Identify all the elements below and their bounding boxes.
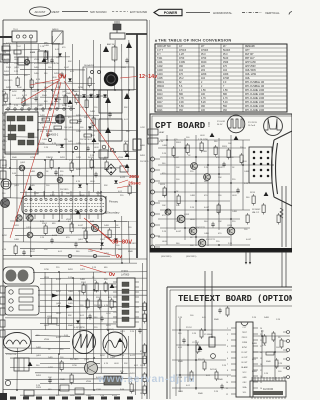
IC101 internal block [27,116,33,121]
svg-text:VR40: VR40 [44,277,50,279]
capacitor C205 [211,222,214,228]
wire [114,40,116,90]
capacitor C414 [54,170,57,176]
module box M402 [99,150,108,158]
wire [38,115,99,118]
resistor R322 [130,384,133,392]
svg-text:0.022: 0.022 [4,59,10,61]
diode D402 [88,126,92,129]
svg-text:PROC: PROC [242,337,248,339]
svg-text:2.2K: 2.2K [190,207,195,209]
resistor R903 [88,78,91,86]
svg-text:2.2K: 2.2K [222,365,227,367]
resistor R502 [44,226,47,234]
wire [141,263,143,287]
wire [3,197,24,199]
svg-text:1/2W: 1/2W [44,269,49,271]
svg-text:0.047: 0.047 [56,337,62,339]
svg-text:2SC1815: 2SC1815 [4,80,13,82]
wire [40,299,116,302]
svg-text:16.7mS: 16.7mS [248,125,256,127]
wire [121,216,123,263]
teletext IC U1 pin numbers [226,328,262,396]
svg-text:5.6K: 5.6K [179,106,184,108]
adjustment legend oval [30,7,51,16]
wire [38,129,137,132]
svg-text:Q206: Q206 [227,225,233,227]
wire [141,287,143,399]
CPT component value labels texture [162,135,252,247]
connector CN301 [104,376,121,385]
wire [128,40,130,160]
wire [72,44,74,168]
wire [160,173,230,175]
svg-text:R421: R421 [157,110,163,112]
main board border [3,20,147,399]
svg-text:DEGAUSS: DEGAUSS [84,64,95,67]
wire [40,322,116,325]
resistor R312 [110,300,113,308]
capacitor C203 [236,188,239,194]
teletext IC U2 body [250,381,286,397]
wire [14,56,70,58]
bridge rectifier diode D904 [103,94,107,97]
svg-text:0.047: 0.047 [52,115,58,117]
wire [261,330,263,378]
T101 coil b [23,35,26,38]
resistor R336 [143,386,146,394]
resistor R108 [44,52,47,60]
svg-text:1.2H: 1.2H [179,54,184,56]
svg-text:D502: D502 [100,239,106,241]
IC101 internal block [7,116,15,121]
test point TP501 [68,254,71,257]
power legend pointer tag [154,9,182,15]
svg-text:0.047: 0.047 [174,157,180,159]
wire [30,330,32,354]
teletext IC U1 notch [241,322,248,326]
test point TP403 [48,138,51,141]
resistor R506 [84,231,87,239]
IC101 internal block [27,140,34,145]
wire [253,335,290,337]
wire stub arrowheads [245,262,251,265]
svg-text:4.7K: 4.7K [76,181,81,183]
wire [51,278,53,324]
diode D103 [68,78,72,81]
wire [158,164,273,166]
svg-text:510DX: 510DX [223,50,231,52]
CRT socket [249,147,272,183]
wire [218,138,220,230]
wire [107,284,110,330]
red annotation pointer line [120,77,137,79]
resistor R306 [104,283,107,291]
resistor R416 [105,162,108,170]
svg-text:X1 6MHz: X1 6MHz [204,334,213,336]
resistor R219 [217,205,220,213]
line filter LF901 [110,33,125,39]
bridge rectifier diode D903 [96,94,100,97]
teletext IC U1 right pins [253,328,258,394]
svg-text:2: 2 [227,334,228,336]
wire CRT [272,164,274,166]
svg-text:GND: GND [242,377,247,379]
wire [172,329,231,331]
resistor R225 [277,215,280,223]
wire [72,278,74,358]
degauss coil loop a [6,270,17,282]
wire legend dash-dot line [242,12,262,14]
degauss switch contact a [91,71,94,74]
wire [44,50,46,109]
wire legend line [186,12,210,14]
svg-text:5.6K: 5.6K [90,221,95,223]
resistor R510 [14,246,17,254]
wire [3,61,55,64]
svg-text:370F: 370F [201,58,207,60]
capacitor C201 [222,162,225,168]
resistor R328 [143,314,146,322]
svg-text:6: 6 [227,358,228,360]
teletext IC U1 left pins [231,328,236,394]
svg-text:2SC1815: 2SC1815 [70,359,79,361]
wire [79,290,81,336]
svg-text:17: 17 [260,370,262,372]
svg-text:R310: R310 [96,297,102,299]
svg-text:FBT 110°: FBT 110° [245,58,255,60]
adjustment mark A15 [125,164,130,168]
diode D410 [60,144,64,147]
RP301 divider [23,358,25,371]
resistor R3 [203,362,206,369]
wire [3,103,70,105]
svg-text:9: 9 [227,376,228,378]
svg-text:Q301: Q301 [84,359,90,361]
svg-text:22: 22 [260,340,262,342]
wire [86,68,88,184]
svg-text:1.2K: 1.2K [276,319,281,321]
svg-text:C404: C404 [157,74,163,76]
adjustment mark A1 [42,58,47,62]
wire [184,138,186,240]
wire [230,135,232,246]
svg-text:VR40: VR40 [66,219,72,221]
adjustment mark A6 [110,284,115,288]
red annotation pointer line [84,218,112,241]
resistor R508 [108,230,111,238]
svg-text:R506: R506 [82,228,88,230]
wire [40,362,100,364]
svg-text:!: ! [208,122,210,129]
wire [86,184,89,242]
IF coil L102 top view [55,114,65,124]
adjustment mark A9 [118,338,123,342]
capacitor C312 [138,328,141,334]
wire [121,330,123,373]
svg-text:LA7800: LA7800 [121,274,130,277]
spark gap SG901 [103,46,109,52]
transistor Q404 [57,177,63,183]
transistor Q203 [177,215,185,223]
table column lines [176,44,178,112]
svg-text:T102: T102 [16,46,22,48]
svg-text:R419: R419 [157,106,163,108]
svg-text:1.2K: 1.2K [120,355,125,357]
transistor Q503 [27,215,33,221]
svg-text:15: 15 [260,382,262,384]
diode D502 [100,242,104,245]
terminal block TB301 [24,390,34,396]
resistor R418 [128,186,131,194]
wire [3,48,40,51]
svg-text:R324: R324 [36,387,42,389]
capacitor C504 [74,242,77,248]
wire [100,44,102,198]
wire [37,44,40,152]
svg-text:2.2K: 2.2K [278,363,283,365]
adjustment mark A12 [264,192,269,196]
capacitor C110 [60,72,63,78]
wire [30,37,32,109]
svg-text:5.1K: 5.1K [223,102,228,104]
wire [38,289,147,291]
svg-text:R3 470: R3 470 [198,359,206,361]
resistor R217 [246,215,249,223]
resistor R110 [16,78,19,86]
T501 bottom pin stubs [25,214,27,219]
svg-text:1.2K: 1.2K [192,333,197,335]
wire [160,209,250,211]
svg-text:KSC2271: KSC2271 [206,239,216,241]
wire [40,277,147,279]
svg-text:CPT BOARD: CPT BOARD [155,121,206,131]
bridge rectifier diode D901 [82,94,86,97]
diode D105 [54,98,58,101]
IC101 internal block [28,133,34,138]
svg-text:DY 28.5V: DY 28.5V [248,122,257,124]
svg-text:470M: 470M [223,78,229,80]
svg-text:0.047: 0.047 [2,165,8,167]
wire [3,329,147,331]
T501 end cap [105,196,107,214]
wire junction dots [9,89,136,391]
wire [58,354,60,395]
capacitor C3 [218,308,221,314]
svg-text:10: 10 [226,382,228,384]
svg-text:6.3V: 6.3V [159,141,164,143]
resistor R428 [84,134,92,137]
svg-text:T101: T101 [13,29,19,31]
wire [38,305,147,307]
wire [160,191,240,193]
svg-text:2.2K: 2.2K [228,243,233,245]
svg-text:5.6K: 5.6K [64,335,69,337]
wire [160,156,240,158]
red annotation pointer line [117,186,128,188]
T501 core divider [24,203,104,205]
transistor Q402 [19,165,25,171]
wire CRT lead 1 [281,186,283,247]
resistor R334 [143,374,146,382]
teletext right edge connector [283,331,290,379]
resistor R402 [75,95,78,103]
resistor R103 [14,50,21,54]
test point TP402 [110,148,114,152]
table cell text [157,45,265,112]
svg-text:C405: C405 [157,78,163,80]
RP301 divider [18,358,20,371]
wire [93,40,95,192]
red annotation pointer line [10,81,58,238]
IC101 internal block [18,125,25,131]
svg-text:94.5V: 94.5V [217,124,223,126]
svg-text:20": 20" [201,46,205,48]
warning triangle W401 [124,93,130,99]
svg-text:Q203: Q203 [184,214,190,216]
panel switch SW3 [19,305,33,310]
svg-text:5.6K: 5.6K [120,389,125,391]
svg-text:8: 8 [227,370,228,372]
svg-text:www.servan-dj.ru: www.servan-dj.ru [97,374,195,385]
wire [3,89,137,91]
wire [38,122,60,124]
svg-text:370F: 370F [179,58,185,60]
diode D504 [114,238,118,241]
svg-text:APP 1/2W: APP 1/2W [245,61,256,64]
svg-text:12~14v: 12~14v [139,74,157,80]
svg-text:C402: C402 [157,66,163,68]
degauss coil loop b [18,270,29,282]
adjustment mark A4 [28,186,33,190]
wire [3,167,120,169]
svg-text:0.022: 0.022 [52,235,58,237]
degauss switch contact b [98,71,101,74]
IC101 jungle IC body [5,112,38,154]
wire [10,357,147,359]
edge terminal E1 [0,286,5,293]
resistor R114 [4,94,7,102]
power transformer T501 body [22,196,106,214]
svg-text:2.2K: 2.2K [204,167,209,169]
fuse F501 [133,139,141,150]
svg-text:14: 14 [260,388,262,390]
wire [44,272,46,330]
scope waveform H pulse [227,115,245,133]
resistor R302 [82,285,85,293]
svg-text:0.022: 0.022 [30,52,36,54]
adjustment mark A10 [210,133,215,137]
mains plug P901 [113,21,121,30]
svg-text:1.2K: 1.2K [69,160,74,162]
IF transformer T101 can [12,31,37,42]
transistor Q502 [16,215,22,221]
svg-text:C905: C905 [121,67,127,69]
wire [242,140,244,210]
wire [100,192,102,249]
svg-text:0.039: 0.039 [179,62,186,64]
wire [3,73,30,75]
adjustment mark A8 [28,362,33,366]
wire to teletext 2 [249,252,251,262]
svg-text:2SC1815: 2SC1815 [72,95,81,97]
test point TP404 [74,146,77,149]
transistor Q201 [191,163,198,170]
capacitor C308 [48,378,51,384]
wire [179,318,181,392]
resistor R410 [50,160,53,168]
resistor R201 [172,148,175,156]
wire [158,236,230,238]
wire [40,262,137,264]
wire [30,176,32,256]
svg-text:2.2K: 2.2K [2,121,7,123]
panel control VR2 [9,299,13,303]
adjustment mark A7 [68,296,73,300]
wire [107,90,110,152]
svg-text:REMARK: REMARK [245,45,255,48]
svg-text:30~80V: 30~80V [112,240,132,246]
fusible resistor R901 [112,47,117,60]
transistor Q205 [198,239,206,247]
wire [40,311,116,314]
svg-text:1.5K: 1.5K [223,90,228,92]
wire [5,352,147,354]
svg-text:VCC: VCC [243,372,248,374]
svg-text:VAL 1/2: VAL 1/2 [252,211,260,214]
wire [5,317,147,319]
resistor R420 [42,118,50,121]
svg-text:5.6K: 5.6K [12,95,17,97]
warning triangle inside SB401 [105,97,111,103]
svg-text:2.2K: 2.2K [36,385,41,387]
test point TP401 [102,145,106,149]
red annotation pointer line [95,227,112,242]
svg-text:0v: 0v [109,272,116,278]
svg-text:3: 3 [227,340,228,342]
svg-text:R502: R502 [42,223,48,225]
wire mains input bus [0,36,12,38]
svg-text:4.7K: 4.7K [36,79,41,81]
T501 core divider b [24,206,104,208]
choke L304 [60,385,69,391]
wire [274,336,276,380]
capacitor C410 [78,118,81,124]
svg-text:VR40: VR40 [86,381,92,383]
svg-text:0.047: 0.047 [56,279,62,281]
svg-text:24: 24 [260,328,262,330]
transistor Q206 [227,227,235,235]
CRT socket pins [253,151,270,178]
IC301 right pins [135,281,139,283]
wire [58,44,60,109]
wire antenna lead [116,21,118,33]
svg-text:0.022: 0.022 [130,355,136,357]
shield box SB401 [99,90,122,113]
svg-text:1.2K: 1.2K [4,63,9,65]
svg-text:T401: T401 [157,58,163,60]
svg-text:ADJUST: ADJUST [35,10,46,14]
wire [93,358,95,390]
wire [158,182,250,184]
wire [65,52,68,160]
transistor Q403 [37,172,43,178]
wire [33,271,147,274]
svg-text:2.2K: 2.2K [130,331,135,333]
svg-text:BLANK: BLANK [241,366,248,369]
teletext IC U1 label [241,327,248,394]
resistor R326 [143,303,146,311]
